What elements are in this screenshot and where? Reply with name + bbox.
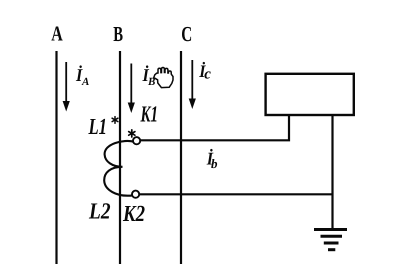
wire K2 to ground riser — [139, 193, 332, 195]
label IB — [142, 65, 156, 88]
node A — [51, 22, 63, 46]
label IA — [75, 65, 89, 88]
label K2 — [122, 201, 145, 226]
cursor hand icon — [154, 68, 173, 88]
wire phase B conductor — [119, 51, 121, 264]
svg-text:c: c — [204, 67, 211, 83]
polarity mark asterisk at K1 — [129, 130, 135, 137]
current arrow IC — [189, 60, 196, 109]
svg-text:B: B — [113, 22, 123, 46]
wire K1 to instrument — [140, 116, 289, 140]
transformer CT secondary winding L1-L2 — [104, 141, 134, 196]
svg-text:b: b — [211, 156, 218, 171]
terminal K1 — [133, 137, 140, 144]
wire phase A conductor — [55, 51, 57, 264]
svg-text:L1: L1 — [88, 114, 107, 139]
instrument box U1 — [266, 74, 354, 115]
wire instrument to ground — [331, 116, 333, 229]
label L2 — [88, 199, 110, 224]
polarity mark asterisk at L1 — [112, 117, 118, 124]
ground — [314, 230, 347, 250]
node B — [113, 22, 123, 46]
wire phase C conductor — [180, 51, 182, 264]
label IC — [198, 61, 211, 83]
current arrow IA — [63, 62, 70, 112]
svg-text:K2: K2 — [122, 201, 145, 226]
terminal K2 — [132, 191, 139, 198]
label K1 — [140, 102, 158, 127]
label Ib — [206, 149, 218, 172]
svg-text:A: A — [51, 22, 63, 46]
current arrow IB — [128, 64, 135, 114]
label L1 — [88, 114, 107, 139]
node C — [181, 22, 192, 46]
svg-text:C: C — [181, 22, 192, 46]
svg-text:A: A — [81, 76, 89, 88]
svg-text:L2: L2 — [88, 199, 110, 224]
svg-text:K1: K1 — [140, 102, 158, 127]
